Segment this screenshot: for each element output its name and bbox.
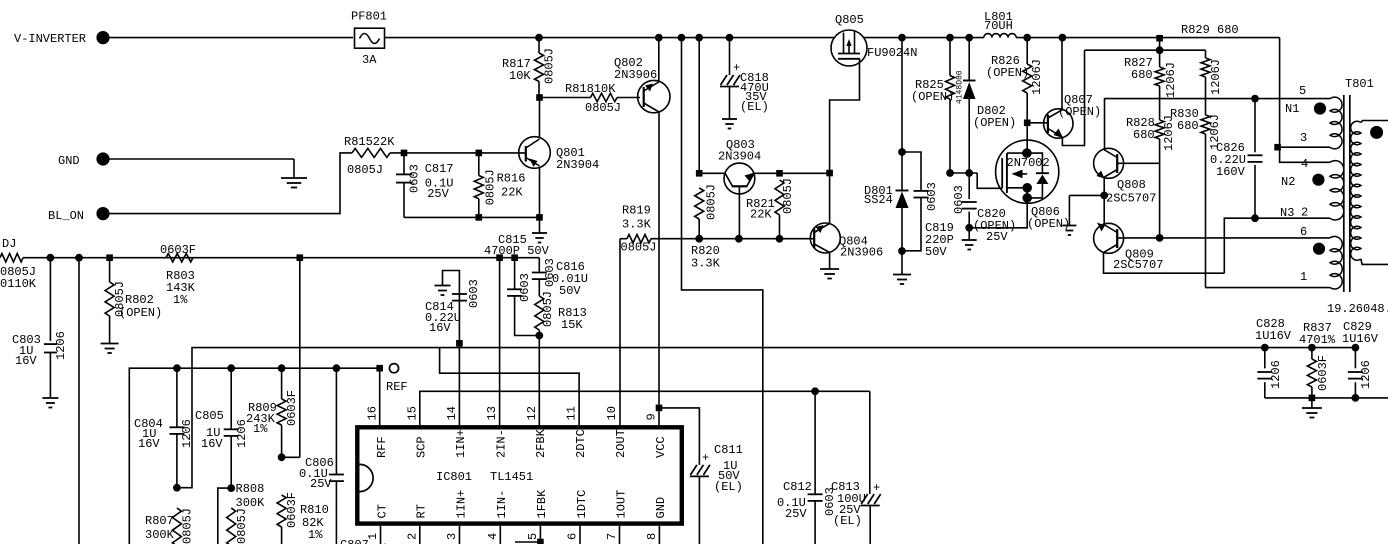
wire T801 pin3 <box>1278 146 1330 148</box>
fuse PF801 3A <box>351 10 387 68</box>
svg-text:+: + <box>702 451 709 465</box>
svg-text:C812: C812 <box>783 480 812 494</box>
svg-text:2N3906: 2N3906 <box>614 68 657 82</box>
svg-text:25V: 25V <box>427 187 449 201</box>
svg-text:C811: C811 <box>714 443 743 457</box>
resistor R802 (OPEN) <box>105 258 162 344</box>
svg-text:0603F: 0603F <box>160 243 196 257</box>
svg-text:0603F: 0603F <box>1316 355 1330 391</box>
svg-text:0805J: 0805J <box>705 184 719 220</box>
wire Q803 base down <box>738 186 740 238</box>
wire node A base line <box>699 171 782 177</box>
transistor Q804 2N3906 <box>810 223 883 260</box>
svg-text:50V: 50V <box>925 245 947 259</box>
ground C803 <box>42 398 58 408</box>
svg-text:70UH: 70UH <box>984 19 1013 33</box>
transistor Q802 2N3906 <box>614 56 670 113</box>
svg-text:TL1451: TL1451 <box>490 470 533 484</box>
capacitor C805 1U 16V <box>195 368 249 491</box>
capacitor C820 (OPEN) 25V <box>952 173 1016 244</box>
node BL_ON terminal <box>48 208 109 224</box>
svg-text:1U16V: 1U16V <box>1342 332 1379 346</box>
resistor R813 15K <box>535 279 587 335</box>
diode D801 SS24 <box>864 38 909 255</box>
wire Q808 collector path <box>1105 95 1331 149</box>
transformer T801 label <box>1345 77 1374 91</box>
svg-text:0603F: 0603F <box>285 492 299 528</box>
transistor Q805 FU9024N <box>831 13 917 66</box>
transistor Q803 2N3904 <box>718 138 761 194</box>
capacitor C819 220P 50V <box>902 152 954 259</box>
svg-text:680: 680 <box>1131 68 1153 82</box>
svg-text:2N3904: 2N3904 <box>556 158 599 172</box>
svg-text:0805J: 0805J <box>181 508 195 544</box>
wire pin10 net <box>619 239 621 428</box>
ground Q808 emitter net <box>1062 226 1076 236</box>
capacitor C814 0.22U 16V <box>425 271 481 428</box>
wire R815 to Q801 base <box>390 150 526 156</box>
svg-text:8: 8 <box>645 533 659 540</box>
svg-text:2N3904: 2N3904 <box>718 150 761 164</box>
transformer T801 winding N2 <box>1280 157 1344 220</box>
wire Q809 base <box>1117 235 1163 242</box>
svg-text:4148D80: 4148D80 <box>956 70 965 104</box>
wire Q809 emitter path <box>1104 253 1225 273</box>
op-amp IC801 TL1451 body <box>357 427 682 523</box>
svg-text:(EL): (EL) <box>740 100 769 114</box>
capacitor C816 0.01U 50V <box>532 258 588 298</box>
svg-text:GND: GND <box>58 154 80 168</box>
svg-text:VCC: VCC <box>654 436 668 458</box>
wire Q806 gate path <box>977 173 1002 188</box>
svg-text:Q808: Q808 <box>1117 178 1146 192</box>
transformer T801 core <box>1344 95 1350 292</box>
svg-text:(OPEN): (OPEN) <box>119 306 162 320</box>
svg-text:19.26048.: 19.26048. <box>1327 302 1388 316</box>
wire pin13 net <box>499 258 501 428</box>
node V-INVERTER terminal <box>14 31 109 46</box>
diode D802 (OPEN) <box>956 38 1017 173</box>
resistor R837 470 1% <box>1299 321 1336 398</box>
svg-text:6: 6 <box>1300 225 1307 239</box>
svg-text:0805J: 0805J <box>543 48 557 84</box>
svg-text:N3: N3 <box>1280 206 1294 220</box>
wire Q802 collector down pin9 net <box>658 112 660 405</box>
wire Q802 emitter to rail <box>655 34 662 82</box>
svg-text:4701%: 4701% <box>1299 333 1336 347</box>
svg-text:R802: R802 <box>125 293 154 307</box>
svg-text:680: 680 <box>1133 128 1155 142</box>
svg-text:0603: 0603 <box>518 273 532 302</box>
resistor R801 110K <box>0 237 37 291</box>
svg-text:680: 680 <box>1177 119 1199 133</box>
node GND terminal <box>58 153 109 168</box>
wire R809 bottom corner <box>282 456 300 458</box>
svg-text:0805J: 0805J <box>235 508 249 544</box>
svg-text:2OUT: 2OUT <box>614 429 628 458</box>
capacitor C813 100U 25V (EL) <box>831 391 881 544</box>
wire R830 chain <box>1201 50 1223 115</box>
svg-text:1DTC: 1DTC <box>575 490 589 519</box>
capacitor C818 470U 35V (EL) <box>720 38 769 119</box>
node REF terminal <box>386 364 408 394</box>
svg-text:1206: 1206 <box>1269 360 1283 389</box>
svg-text:2SC5707: 2SC5707 <box>1106 192 1156 206</box>
capacitor C826 0.22U 160V <box>1210 99 1263 222</box>
wire pin5 stub <box>515 539 543 544</box>
wire C815 label <box>484 233 550 258</box>
svg-text:1%: 1% <box>308 528 323 542</box>
inductor L801 70UH <box>984 10 1016 38</box>
svg-text:2SC5707: 2SC5707 <box>1113 258 1163 272</box>
wire Q809 to T801 pin6 <box>1160 237 1330 239</box>
svg-text:V-INVERTER: V-INVERTER <box>14 32 86 46</box>
svg-text:25V: 25V <box>986 230 1008 244</box>
svg-text:0603: 0603 <box>925 182 939 211</box>
svg-text:16V: 16V <box>15 354 37 368</box>
svg-text:2N7002: 2N7002 <box>1007 156 1050 170</box>
svg-text:1%: 1% <box>253 422 268 436</box>
svg-text:0805J: 0805J <box>483 169 497 205</box>
transistor Q808 2SC5707 <box>1094 148 1157 205</box>
svg-text:12: 12 <box>525 406 539 420</box>
label C807 clipped <box>340 538 391 544</box>
svg-text:(EL): (EL) <box>833 514 862 528</box>
svg-text:300K: 300K <box>236 496 266 510</box>
svg-text:1FBK: 1FBK <box>535 489 549 519</box>
svg-text:10K: 10K <box>509 69 531 83</box>
svg-text:C817: C817 <box>425 162 454 176</box>
svg-text:22K: 22K <box>750 208 772 222</box>
wire R803 to R809 node <box>299 258 301 458</box>
svg-text:1IN-: 1IN- <box>495 490 509 519</box>
svg-text:R819: R819 <box>622 204 651 218</box>
wire mid rail <box>23 254 539 261</box>
wire rail to corner <box>1016 34 1279 41</box>
svg-text:160V: 160V <box>1216 165 1246 179</box>
svg-text:R807: R807 <box>145 514 174 528</box>
wire Q801 emitter <box>539 168 541 218</box>
transformer T801 secondary <box>1351 121 1388 265</box>
svg-text:1U16V: 1U16V <box>1255 329 1292 343</box>
svg-text:1206J: 1206J <box>1209 59 1223 95</box>
svg-text:1%: 1% <box>173 293 188 307</box>
svg-text:0805J: 0805J <box>585 101 621 115</box>
capacitor C811 1U 50V (EL) <box>659 408 743 544</box>
svg-text:4700P 50V: 4700P 50V <box>484 244 550 258</box>
svg-text:IC801: IC801 <box>436 470 472 484</box>
wire BL_ON to R815 <box>108 153 352 214</box>
svg-text:(OPEN): (OPEN) <box>973 116 1016 130</box>
capacitor C812 0.1U 25V <box>777 391 837 544</box>
wire T801 pin1 net <box>1206 287 1331 289</box>
svg-text:7: 7 <box>605 533 619 540</box>
wire y50 line <box>1085 47 1206 54</box>
svg-text:14: 14 <box>445 406 459 420</box>
svg-text:(EL): (EL) <box>714 480 743 494</box>
wire Q807 emitter path <box>1062 50 1084 145</box>
resistor R827 680 1206J <box>1124 38 1178 98</box>
wire R808 branch <box>218 488 231 544</box>
wire vertical x79 <box>78 258 80 544</box>
resistor R826 (OPEN) 1206J <box>986 38 1044 126</box>
wire Q805 gate path <box>827 59 860 176</box>
resistor R808 300K <box>227 482 265 544</box>
transistor Q806 2N7002 (OPEN) <box>996 140 1071 231</box>
svg-text:0603: 0603 <box>407 164 421 193</box>
svg-text:9: 9 <box>645 413 659 420</box>
wire Q808 emitter down <box>1101 178 1108 224</box>
svg-text:2N3906: 2N3906 <box>840 246 883 260</box>
svg-text:N1: N1 <box>1285 102 1299 116</box>
wire Q807 collector <box>1061 38 1063 110</box>
ground D801 <box>893 251 911 284</box>
svg-text:(OPEN): (OPEN) <box>1058 105 1101 119</box>
ground C820 <box>962 228 977 250</box>
svg-text:GND: GND <box>654 497 668 519</box>
transistor Q809 2SC5707 <box>1094 223 1164 273</box>
capacitor C829 1U16V 1206 <box>1342 320 1379 398</box>
capacitor C815 4700P <box>507 258 543 339</box>
svg-text:T801: T801 <box>1345 77 1374 91</box>
svg-text:REF: REF <box>386 380 408 394</box>
svg-text:300K: 300K <box>145 528 175 542</box>
resistor R820 3.3K <box>691 38 721 271</box>
wire Q804 collector <box>829 253 831 270</box>
resistor R818 10K <box>539 82 640 115</box>
resistor R817 10K <box>502 34 557 95</box>
svg-text:0805J: 0805J <box>621 241 657 255</box>
svg-text:R816: R816 <box>497 171 526 185</box>
svg-text:SCP: SCP <box>415 436 429 458</box>
resistor R819 3.3K <box>620 204 699 255</box>
wire pin12 net <box>538 336 540 428</box>
svg-text:3: 3 <box>1300 131 1307 145</box>
resistor R807 300K <box>145 508 195 544</box>
transistor Q807 (OPEN) <box>1044 93 1102 138</box>
svg-text:R81522K: R81522K <box>344 135 395 149</box>
svg-text:1206J: 1206J <box>1030 59 1044 95</box>
ground R837 <box>1302 398 1322 418</box>
resistor R821 22K <box>746 178 795 239</box>
wire GND input <box>108 159 294 178</box>
capacitor C828 1U16V 1206 <box>1255 317 1292 398</box>
svg-text:(OPEN): (OPEN) <box>1027 217 1070 231</box>
svg-text:C805: C805 <box>195 409 224 423</box>
capacitor C817 0.1U 25V <box>396 153 454 218</box>
wire pin15 net y391 <box>420 388 870 427</box>
wire rail right of Q805 <box>864 34 984 41</box>
svg-text:2IN-: 2IN- <box>494 429 508 458</box>
capacitor C803 1U 16V <box>12 258 68 398</box>
wire net y348 <box>177 344 1359 488</box>
svg-text:1: 1 <box>1300 270 1307 284</box>
wire ground branch <box>1069 195 1104 225</box>
svg-text:(OPEN): (OPEN) <box>911 90 954 104</box>
svg-text:1206: 1206 <box>180 419 194 448</box>
wire pin11 branch <box>440 348 579 428</box>
ground R802 <box>101 344 119 354</box>
wire Q804 emitter up <box>829 173 831 223</box>
label 19.26048 <box>1327 302 1388 316</box>
svg-text:16: 16 <box>366 406 380 420</box>
wire pin16 net <box>379 368 381 427</box>
svg-text:0805J: 0805J <box>781 178 795 214</box>
wire T801 pin2 net <box>1224 218 1330 273</box>
svg-text:2: 2 <box>1301 206 1308 220</box>
svg-text:4: 4 <box>486 533 500 540</box>
resistor R830 680 1206J <box>1170 107 1222 288</box>
wire bottom join <box>1265 395 1388 402</box>
ground Q801 emitter <box>532 217 547 242</box>
transformer T801 winding N3 <box>1300 225 1342 289</box>
svg-text:50V: 50V <box>559 284 581 298</box>
resistor R816 22K <box>474 153 525 218</box>
svg-text:3A: 3A <box>362 53 377 67</box>
wire Q801 collector <box>537 95 543 138</box>
wire R829 net <box>1181 23 1330 162</box>
svg-text:0603: 0603 <box>952 185 966 214</box>
ground C818 <box>722 119 737 129</box>
transistor Q801 2N3904 <box>519 137 600 172</box>
wire emitter bus <box>404 215 542 221</box>
wire bus y368 <box>129 365 382 544</box>
wire jog net x681 to x763 <box>682 38 763 544</box>
svg-text:0603: 0603 <box>467 279 481 308</box>
svg-text:BL_ON: BL_ON <box>48 209 84 223</box>
svg-text:1206: 1206 <box>1359 360 1373 389</box>
svg-text:3.3K: 3.3K <box>691 257 721 271</box>
svg-text:SS24: SS24 <box>864 193 893 207</box>
svg-text:+: + <box>873 481 880 495</box>
svg-text:DJ: DJ <box>2 237 16 251</box>
svg-text:FU9024N: FU9024N <box>867 46 917 60</box>
pin numbers top row <box>366 406 669 458</box>
wire Q807 base <box>1027 122 1048 124</box>
svg-text:5: 5 <box>1299 84 1306 98</box>
svg-text:22K: 22K <box>501 185 523 199</box>
resistor R809 243K 1% <box>246 368 299 460</box>
pin wires and numbers bottom row <box>366 489 668 544</box>
svg-text:R808: R808 <box>236 482 265 496</box>
svg-text:1IN+: 1IN+ <box>454 429 468 458</box>
svg-text:RT: RT <box>415 504 429 518</box>
svg-text:1206J: 1206J <box>1164 62 1178 98</box>
svg-text:15K: 15K <box>561 318 583 332</box>
resistor R815 22K <box>344 135 395 177</box>
wire Q806 source path <box>969 202 1027 228</box>
wire R826 to Q806 drain <box>1026 123 1028 149</box>
svg-text:16V: 16V <box>138 437 160 451</box>
ground C814 <box>435 286 451 296</box>
ground Q804 <box>820 269 839 279</box>
svg-text:CT: CT <box>375 504 389 518</box>
svg-text:1IN+: 1IN+ <box>454 490 468 519</box>
svg-text:Q805: Q805 <box>835 13 864 27</box>
svg-text:1206: 1206 <box>54 331 68 360</box>
svg-text:R829 680: R829 680 <box>1181 23 1239 37</box>
svg-text:RFF: RFF <box>375 436 389 458</box>
wire y173 net <box>950 170 977 177</box>
svg-text:3.3K: 3.3K <box>622 218 652 232</box>
svg-text:0805J: 0805J <box>347 163 383 177</box>
wire V-INVERTER to fuse <box>108 37 353 39</box>
svg-text:R81810K: R81810K <box>565 82 616 96</box>
wire base line to Q804 collector <box>780 172 830 174</box>
wire rail segment <box>539 34 834 41</box>
ground GND input <box>281 178 307 188</box>
svg-text:2: 2 <box>405 533 419 540</box>
resistor R825 (OPEN) <box>911 38 955 177</box>
svg-text:15: 15 <box>405 406 419 420</box>
svg-text:(OPEN): (OPEN) <box>986 66 1029 80</box>
svg-text:0110K: 0110K <box>0 277 37 291</box>
svg-text:13: 13 <box>485 406 499 420</box>
svg-text:C807: C807 <box>340 538 369 544</box>
svg-text:R810: R810 <box>300 503 329 517</box>
transformer T801 winding N1 <box>1285 84 1342 149</box>
svg-text:25V: 25V <box>785 507 807 521</box>
svg-text:11: 11 <box>565 406 579 420</box>
svg-text:3: 3 <box>445 533 459 540</box>
svg-text:PF801: PF801 <box>351 10 387 24</box>
resistor R810 82K 1% <box>277 492 329 544</box>
svg-text:25V: 25V <box>310 477 332 491</box>
svg-text:10: 10 <box>605 406 619 420</box>
svg-text:0603F: 0603F <box>285 390 299 426</box>
wire R819 line right <box>699 235 814 242</box>
capacitor C804 1U 16V <box>134 368 194 491</box>
svg-text:6: 6 <box>566 533 580 540</box>
wire Q808 base <box>1117 162 1159 164</box>
svg-text:4: 4 <box>1301 157 1308 171</box>
resistor R803 143K 0603F <box>160 243 196 307</box>
svg-text:16V: 16V <box>429 321 451 335</box>
svg-text:2DTC: 2DTC <box>574 429 588 458</box>
capacitor C806 0.1U 25V <box>299 368 344 544</box>
svg-text:0805J: 0805J <box>541 291 555 327</box>
resistor R828 680 1206J <box>1126 86 1176 238</box>
wire fuse to rail <box>384 37 539 39</box>
svg-text:2FBK: 2FBK <box>534 428 548 458</box>
svg-text:N2: N2 <box>1281 175 1295 189</box>
svg-text:1OUT: 1OUT <box>614 490 628 519</box>
wire pin9 net <box>656 405 662 427</box>
svg-text:16V: 16V <box>201 437 223 451</box>
